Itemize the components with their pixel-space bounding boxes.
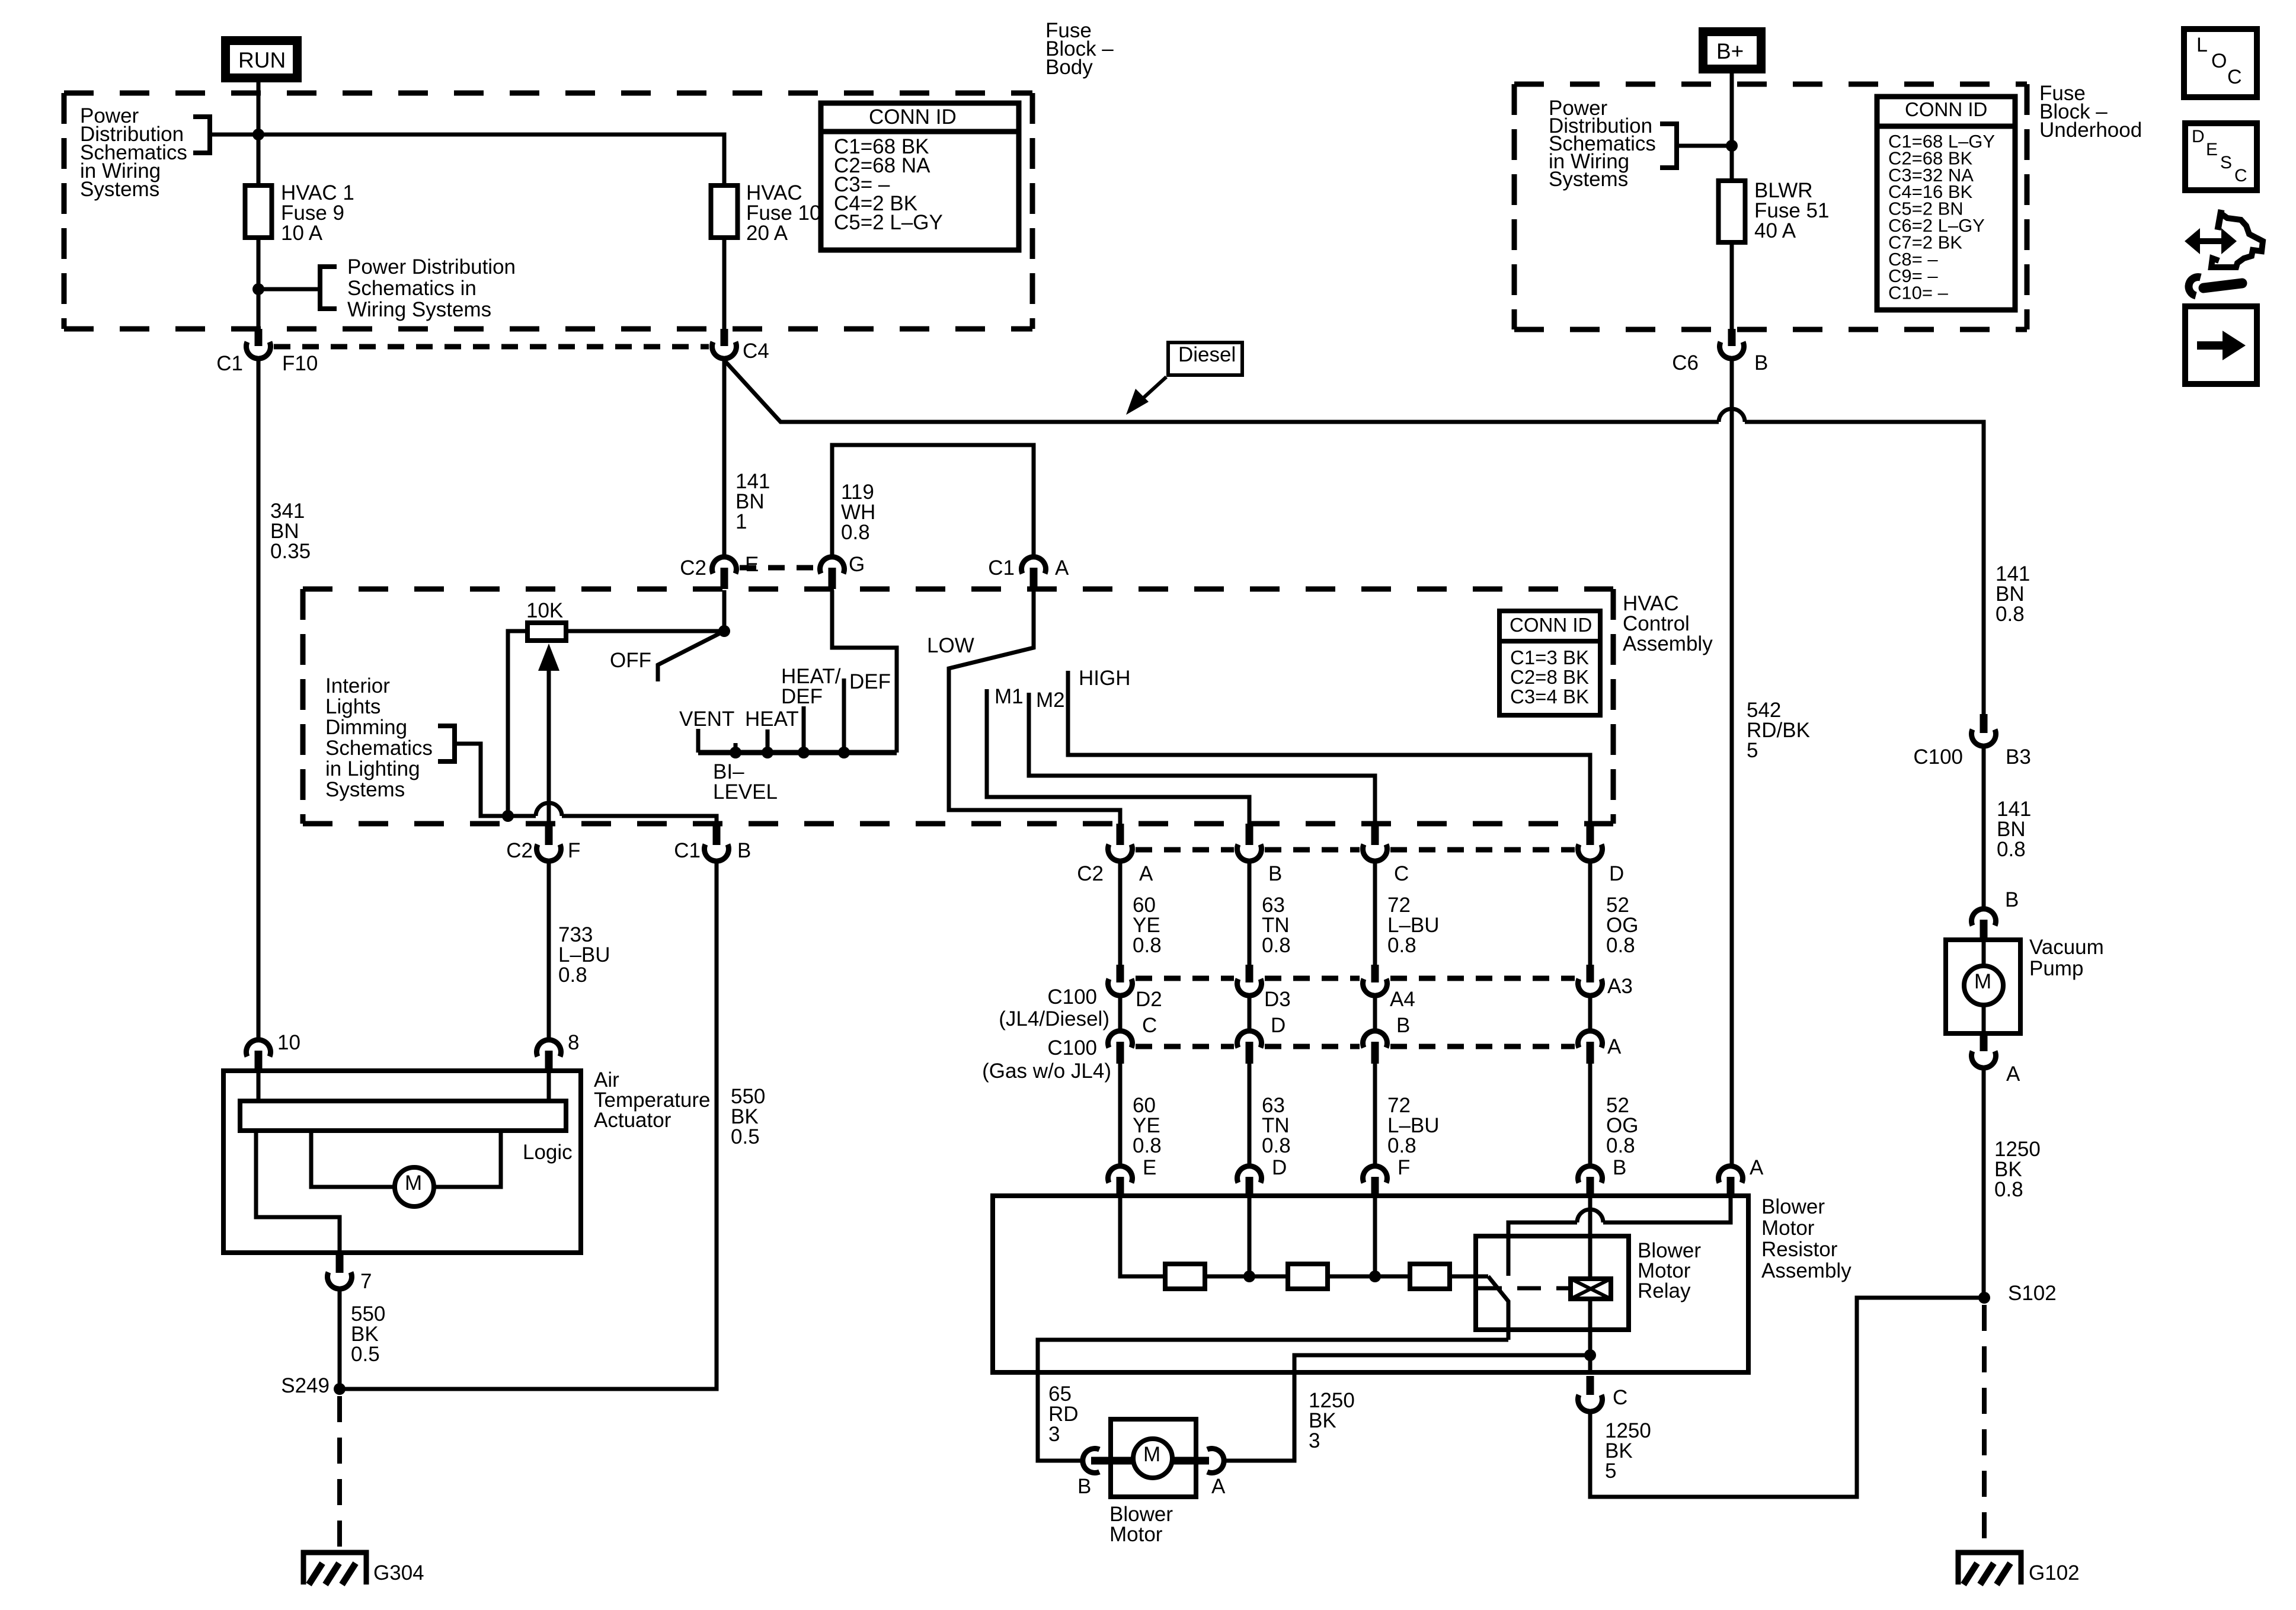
power symbol B+ xyxy=(1699,27,1766,73)
connector pin F xyxy=(1363,1166,1387,1183)
connector C100 row1 col2 xyxy=(1246,965,1253,982)
callout box Diesel xyxy=(1168,343,1242,375)
relay coil xyxy=(1571,1279,1611,1299)
wire hop over wiper xyxy=(536,803,562,816)
svg-text:Relay: Relay xyxy=(1638,1279,1691,1302)
wire 141 BN C4 to C2/E xyxy=(722,359,727,557)
bracket to Power Distribution text 2 xyxy=(320,267,337,309)
wire 733 L-BU xyxy=(547,862,551,1040)
svg-text:Body: Body xyxy=(1045,56,1093,79)
svg-text:0.8: 0.8 xyxy=(1997,838,2026,861)
wire B col to coil xyxy=(1588,1196,1593,1279)
bracket power distribution right xyxy=(1660,124,1677,168)
wire M2 xyxy=(1029,693,1375,824)
wire J3 to fuse 51 xyxy=(1730,146,1734,181)
svg-text:Underhood: Underhood xyxy=(2039,119,2142,142)
svg-text:M: M xyxy=(1974,970,1991,993)
resistor R1 xyxy=(1165,1264,1205,1289)
wire 52 lower xyxy=(1588,1064,1593,1166)
svg-text:Interior: Interior xyxy=(325,674,390,697)
wire 10K to OFF pivot xyxy=(566,629,724,633)
resistor 10K xyxy=(527,623,566,641)
air temperature actuator box xyxy=(223,1071,581,1253)
blower motor box xyxy=(1111,1419,1196,1497)
switch blade OFF xyxy=(658,631,724,681)
svg-text:0.8: 0.8 xyxy=(1606,934,1635,957)
icon wrench-arrow xyxy=(2196,238,2225,244)
svg-text:B: B xyxy=(2005,888,2019,911)
wire R2-R3 xyxy=(1328,1275,1410,1279)
node S249 xyxy=(334,1383,346,1395)
icon LOC box xyxy=(2184,29,2257,97)
fuse block - body box (dashed) xyxy=(64,91,1032,96)
svg-text:Assembly: Assembly xyxy=(1623,632,1713,655)
svg-text:0.8: 0.8 xyxy=(1262,1134,1291,1157)
connector C1 pin B xyxy=(713,824,721,845)
connector C100 row2 col2 xyxy=(1237,1031,1262,1048)
wire M1 xyxy=(987,689,1249,824)
svg-text:CONN ID: CONN ID xyxy=(1905,98,1987,120)
connector C100 row2 col3 xyxy=(1363,1031,1387,1048)
wire R1-R2 xyxy=(1205,1275,1288,1279)
wire fuse10 to C4 xyxy=(722,238,727,329)
svg-text:A: A xyxy=(1211,1475,1226,1498)
svg-text:Schematics: Schematics xyxy=(325,737,433,760)
node HEAT xyxy=(766,729,770,753)
svg-text:C1: C1 xyxy=(988,556,1015,580)
svg-text:A: A xyxy=(2006,1062,2020,1086)
CONN ID table underhood xyxy=(1877,97,2015,310)
svg-text:0.35: 0.35 xyxy=(270,540,311,563)
svg-text:S102: S102 xyxy=(2008,1282,2057,1305)
connector C100 row1 col3 xyxy=(1371,965,1379,982)
svg-text:M1: M1 xyxy=(994,685,1024,708)
dotted line C-D xyxy=(1390,847,1575,853)
svg-text:A: A xyxy=(1055,556,1069,580)
svg-text:Actuator: Actuator xyxy=(594,1109,671,1132)
wire S249 to G304 (dashed) xyxy=(337,1396,342,1551)
wire 10K left leg xyxy=(508,631,527,816)
dotted line row C100-2 b xyxy=(1265,1044,1360,1049)
svg-text:Motor: Motor xyxy=(1761,1217,1815,1240)
svg-text:20 A: 20 A xyxy=(746,222,788,245)
wire C100 link xyxy=(1373,996,1377,1031)
wire 550 BK from C1/B xyxy=(344,862,717,1389)
svg-text:10 A: 10 A xyxy=(281,222,323,245)
dotted line B-C xyxy=(1265,847,1360,853)
power symbol RUN xyxy=(221,36,302,82)
svg-text:E: E xyxy=(1143,1156,1156,1179)
svg-text:Lights: Lights xyxy=(325,695,380,718)
svg-text:B: B xyxy=(1268,862,1282,885)
wire C100 link xyxy=(1118,996,1123,1031)
node junction J3 xyxy=(1726,140,1738,152)
svg-text:LOW: LOW xyxy=(927,634,974,657)
dotted line row C100-1 a xyxy=(1136,976,1234,981)
resistor R2 xyxy=(1288,1264,1328,1289)
svg-text:B: B xyxy=(1077,1475,1091,1498)
wire 60 lower xyxy=(1118,1064,1123,1166)
wire logic output to pin 7 xyxy=(256,1131,340,1253)
svg-text:C2: C2 xyxy=(1077,862,1104,885)
svg-text:B: B xyxy=(1396,1014,1410,1037)
svg-text:HEAT: HEAT xyxy=(745,708,799,731)
svg-text:F: F xyxy=(568,839,580,862)
svg-text:1: 1 xyxy=(736,510,747,533)
wire 119 WH loop xyxy=(832,445,1034,557)
svg-text:C10= –: C10= – xyxy=(1888,283,1949,303)
wire J1 down to fuse 9 xyxy=(257,135,261,185)
node 10K junction xyxy=(502,810,514,822)
svg-text:Resistor: Resistor xyxy=(1761,1238,1838,1261)
wire fuse51 to C6 xyxy=(1730,242,1734,329)
svg-text:G: G xyxy=(849,553,865,576)
wire pin10 to logic bar xyxy=(257,1071,261,1101)
wire G pin to mode bus xyxy=(832,590,897,753)
svg-text:M2: M2 xyxy=(1036,689,1065,712)
svg-text:Systems: Systems xyxy=(1549,168,1628,191)
svg-text:0.5: 0.5 xyxy=(351,1343,380,1366)
wire feed into relay xyxy=(1508,1222,1577,1276)
svg-text:O: O xyxy=(2211,50,2227,72)
connector C2 pin A xyxy=(1117,824,1124,845)
svg-text:Dimming: Dimming xyxy=(325,716,407,739)
svg-text:0.5: 0.5 xyxy=(731,1125,760,1148)
svg-text:C: C xyxy=(1142,1014,1157,1037)
connector 8 xyxy=(537,1040,561,1057)
svg-text:CONN ID: CONN ID xyxy=(1510,614,1592,636)
svg-text:0.8: 0.8 xyxy=(1606,1134,1635,1157)
wiper arrow of 10K xyxy=(547,668,551,822)
svg-text:D3: D3 xyxy=(1264,988,1291,1011)
svg-text:M: M xyxy=(405,1172,422,1195)
connector pin 7 xyxy=(336,1253,344,1273)
svg-text:C100: C100 xyxy=(1047,1036,1097,1060)
wire 65 RD blade output xyxy=(1038,1340,1508,1461)
connector A blower xyxy=(1207,1448,1224,1473)
svg-text:LEVEL: LEVEL xyxy=(713,780,778,804)
blower motor resistor assembly box xyxy=(993,1196,1748,1372)
svg-text:Blower: Blower xyxy=(1761,1195,1825,1218)
svg-text:C1: C1 xyxy=(674,839,701,862)
svg-text:0.8: 0.8 xyxy=(1262,934,1291,957)
svg-text:10K: 10K xyxy=(526,599,563,622)
svg-text:B: B xyxy=(1613,1156,1626,1179)
wire R3 to relay xyxy=(1450,1275,1488,1279)
blower motor relay box xyxy=(1476,1236,1629,1330)
svg-text:F10: F10 xyxy=(282,352,318,375)
svg-text:G102: G102 xyxy=(2029,1561,2080,1585)
wire C2/E pin to OFF pivot xyxy=(722,590,727,631)
wire 550 BK to S249 xyxy=(338,1289,342,1389)
svg-text:B+: B+ xyxy=(1716,39,1744,63)
connector C100 pin B3 xyxy=(1980,714,1988,733)
connector C100 JL4/Diesel pin D2 col1 xyxy=(1117,965,1124,982)
svg-text:M: M xyxy=(1143,1443,1160,1466)
svg-text:0.8: 0.8 xyxy=(1387,934,1416,957)
svg-text:C100: C100 xyxy=(1047,985,1097,1009)
wire logic to motor left xyxy=(311,1131,394,1187)
svg-text:G304: G304 xyxy=(373,1561,424,1585)
svg-text:Diesel: Diesel xyxy=(1178,343,1236,366)
svg-text:0.8: 0.8 xyxy=(1996,603,2025,626)
connector 10 xyxy=(247,1040,271,1057)
connector pin C relay output xyxy=(1587,1376,1594,1395)
fuse block - underhood box (dashed) xyxy=(1514,82,2027,87)
connector B blower xyxy=(1083,1448,1099,1473)
wire C100 link xyxy=(1588,996,1593,1031)
connector pin E xyxy=(1108,1166,1133,1183)
connector A vacuum pump xyxy=(1980,1033,1988,1051)
svg-text:DEF: DEF xyxy=(781,685,823,708)
connector C2 pin E xyxy=(712,557,737,574)
wire pump top xyxy=(1982,940,1986,966)
wire hop over coil column xyxy=(1577,1209,1603,1222)
connector C100 row2 col4 pin A xyxy=(1578,1031,1603,1048)
svg-text:0.8: 0.8 xyxy=(1994,1178,2023,1201)
svg-text:Systems: Systems xyxy=(80,178,159,201)
svg-text:in Lighting: in Lighting xyxy=(325,757,420,780)
svg-text:C4: C4 xyxy=(743,340,769,363)
svg-text:3: 3 xyxy=(1309,1429,1320,1452)
svg-text:Logic: Logic xyxy=(523,1141,573,1164)
svg-text:HIGH: HIGH xyxy=(1079,667,1131,690)
svg-text:40 A: 40 A xyxy=(1754,219,1796,242)
wire 60 YE xyxy=(1118,862,1123,966)
dotted line C2/E to G xyxy=(740,565,817,571)
wire 1250 BK 0.8 xyxy=(1982,1068,1986,1298)
wire 141 BN to pump xyxy=(1982,747,1986,909)
wire logic to motor right xyxy=(434,1131,501,1187)
wire S102 to G102 (dashed) xyxy=(1982,1305,1987,1551)
wire 1250 BK 5 xyxy=(1590,1298,1980,1497)
wire pin8 to logic bar xyxy=(547,1071,551,1101)
svg-text:C: C xyxy=(2234,166,2247,185)
wire 72 L-BU xyxy=(1373,862,1377,966)
svg-text:D: D xyxy=(2192,127,2205,146)
svg-text:Schematics in: Schematics in xyxy=(347,277,477,300)
bracket interior lights xyxy=(438,726,455,761)
wire diesel branch diagonal xyxy=(724,360,1719,422)
connector C2 pin C xyxy=(1371,824,1379,845)
svg-text:VENT: VENT xyxy=(679,708,734,731)
tick VENT xyxy=(696,729,701,753)
svg-text:E: E xyxy=(2206,140,2218,159)
svg-text:S: S xyxy=(2220,153,2232,172)
svg-text:C3=4 BK: C3=4 BK xyxy=(1510,686,1589,708)
svg-text:8: 8 xyxy=(568,1031,579,1054)
node coil output junction xyxy=(1584,1349,1596,1361)
mode bus wire xyxy=(698,750,897,756)
bracket to Power Distribution text xyxy=(193,117,210,153)
svg-text:A: A xyxy=(1139,862,1153,885)
node F junction xyxy=(1369,1270,1381,1282)
svg-text:3: 3 xyxy=(1048,1423,1060,1446)
svg-text:0.8: 0.8 xyxy=(1133,1134,1162,1157)
svg-text:A: A xyxy=(1607,1035,1622,1058)
vacuum pump box xyxy=(1946,940,2020,1033)
relay switch blade xyxy=(1488,1276,1508,1340)
icon next-arrow box xyxy=(2185,306,2257,384)
node BI-LEVEL xyxy=(734,743,738,753)
wire D col xyxy=(1248,1196,1252,1276)
svg-text:D: D xyxy=(1609,862,1624,885)
svg-text:0.8: 0.8 xyxy=(558,964,587,987)
blower motor M xyxy=(1133,1439,1172,1478)
CONN ID table body xyxy=(821,103,1019,250)
wire RUN to junction xyxy=(257,82,261,135)
svg-text:5: 5 xyxy=(1747,739,1758,762)
svg-text:D: D xyxy=(1272,1156,1287,1179)
wire 52 OG xyxy=(1588,862,1593,966)
wire bracket to J3 xyxy=(1677,144,1732,148)
wire hop over B+ column xyxy=(1719,409,1745,422)
node D junction xyxy=(1243,1270,1255,1282)
svg-text:Vacuum: Vacuum xyxy=(2029,936,2104,959)
svg-text:5: 5 xyxy=(1605,1459,1616,1483)
wire coil to C connector xyxy=(1588,1299,1593,1372)
node S102 xyxy=(1978,1292,1990,1304)
logic bar xyxy=(240,1101,566,1131)
svg-text:L: L xyxy=(2196,34,2208,56)
svg-text:10: 10 xyxy=(277,1031,300,1054)
wire E col into chain xyxy=(1120,1196,1165,1276)
svg-text:C100: C100 xyxy=(1913,745,1963,769)
svg-text:C: C xyxy=(2227,66,2242,88)
svg-text:C2: C2 xyxy=(506,839,533,862)
node DEF xyxy=(842,678,846,753)
wire fuse9 to J2 xyxy=(257,238,261,329)
in-line harness dotted line xyxy=(274,344,709,350)
svg-text:C: C xyxy=(1394,862,1409,885)
svg-text:Assembly: Assembly xyxy=(1761,1259,1851,1282)
svg-text:C5=2 L–GY: C5=2 L–GY xyxy=(834,211,943,234)
svg-text:C2=8 BK: C2=8 BK xyxy=(1510,666,1589,688)
wire C100 link xyxy=(1248,996,1252,1031)
svg-text:A4: A4 xyxy=(1390,988,1415,1011)
connector C2 pin B xyxy=(1246,824,1253,845)
connector pin A blower feed xyxy=(1719,1166,1743,1183)
node junction J1 xyxy=(252,129,264,140)
connector pin B xyxy=(1578,1166,1603,1183)
node HEAT/DEF xyxy=(802,706,806,753)
svg-text:C1=3 BK: C1=3 BK xyxy=(1510,646,1589,668)
relay mechanical link (dashed) xyxy=(1478,1286,1569,1291)
wire HIGH xyxy=(1068,671,1590,824)
svg-text:(Gas w/o JL4): (Gas w/o JL4) xyxy=(982,1060,1111,1083)
connector B vacuum pump xyxy=(1971,909,1996,926)
connector C2 pin D xyxy=(1587,824,1594,845)
svg-text:0.8: 0.8 xyxy=(1387,1134,1416,1157)
svg-text:(JL4/Diesel): (JL4/Diesel) xyxy=(999,1007,1109,1030)
connector pin D xyxy=(1237,1166,1262,1183)
CONN ID table HVAC xyxy=(1499,611,1600,715)
svg-text:B3: B3 xyxy=(2006,745,2031,769)
svg-text:B: B xyxy=(737,839,751,862)
fuse F51 BLWR xyxy=(1719,181,1745,242)
svg-text:DEF: DEF xyxy=(849,670,891,693)
HVAC control assembly box (dashed) xyxy=(303,587,1613,592)
svg-text:Pump: Pump xyxy=(2029,957,2083,980)
wire 1250 BK 3 xyxy=(1226,1355,1586,1461)
ground G102 xyxy=(1958,1553,2021,1585)
svg-text:C2: C2 xyxy=(680,556,706,580)
dotted line row C100-2 c xyxy=(1390,1044,1575,1049)
wire B+ down xyxy=(1730,73,1734,146)
svg-text:Wiring Systems: Wiring Systems xyxy=(347,298,491,321)
svg-text:F: F xyxy=(1398,1156,1410,1179)
wire 63 TN xyxy=(1248,862,1252,966)
connector C100 Gas pin C col1 xyxy=(1108,1031,1133,1048)
dotted line row C100-1 b xyxy=(1265,976,1360,981)
svg-text:E: E xyxy=(745,553,759,576)
switch blade LOW wire xyxy=(949,590,1120,824)
svg-text:C1: C1 xyxy=(216,352,243,375)
svg-text:Motor: Motor xyxy=(1109,1523,1163,1546)
svg-text:7: 7 xyxy=(360,1270,372,1293)
svg-text:D2: D2 xyxy=(1136,988,1162,1011)
connector G xyxy=(820,557,845,574)
fuse F10 HVAC xyxy=(711,185,738,238)
node junction J2 xyxy=(252,283,264,295)
connector C100 row1 col4 pin A3 xyxy=(1587,965,1594,982)
svg-text:S249: S249 xyxy=(281,1374,330,1397)
wire J1 to HVAC fuse 10 column xyxy=(210,135,724,185)
wire 542 RD/BK xyxy=(1730,359,1734,1166)
wire A feed to fixed contact xyxy=(1603,1196,1731,1222)
dotted line A-B xyxy=(1136,847,1234,853)
svg-text:0.8: 0.8 xyxy=(841,521,870,544)
svg-text:B: B xyxy=(1754,351,1768,375)
svg-text:C6: C6 xyxy=(1672,351,1699,375)
ground G304 xyxy=(303,1553,366,1585)
svg-text:D: D xyxy=(1271,1014,1285,1037)
fuse F9 HVAC 1 xyxy=(245,185,272,238)
svg-text:RUN: RUN xyxy=(238,48,286,72)
actuator motor M xyxy=(395,1167,434,1206)
icon DESC box xyxy=(2185,123,2257,190)
resistor R3 xyxy=(1410,1264,1450,1289)
connector C2 pin F xyxy=(545,824,553,845)
vacuum pump motor M xyxy=(1964,966,2003,1005)
wire J2 to bracket xyxy=(258,287,320,292)
wire dimmer to C1/B xyxy=(562,816,717,824)
dotted line row C100-2 a xyxy=(1136,1044,1234,1049)
connector C1 pin F10 xyxy=(255,329,263,346)
svg-text:OFF: OFF xyxy=(610,649,651,672)
wire 63 lower xyxy=(1248,1064,1252,1166)
wire 341 BN left column xyxy=(257,359,261,1040)
wire diesel to vacuum pump column xyxy=(1745,422,1984,714)
wire bracket to dimmer wire xyxy=(455,744,536,816)
wire 72 lower xyxy=(1373,1064,1377,1166)
svg-text:0.8: 0.8 xyxy=(1133,934,1162,957)
connector C6 pin B xyxy=(1728,329,1736,346)
node OFF pivot xyxy=(718,625,730,637)
connector C4 xyxy=(721,329,728,346)
svg-text:CONN ID: CONN ID xyxy=(869,105,957,129)
svg-text:Power Distribution: Power Distribution xyxy=(347,255,516,279)
svg-text:A: A xyxy=(1750,1156,1764,1179)
svg-text:A3: A3 xyxy=(1607,975,1633,998)
svg-text:C: C xyxy=(1613,1386,1627,1409)
connector C1 pin A xyxy=(1022,557,1046,574)
svg-text:Systems: Systems xyxy=(325,778,405,801)
wire pump bottom xyxy=(1982,1005,1986,1033)
dotted line row C100-1 c xyxy=(1390,976,1575,981)
wire F col xyxy=(1373,1196,1377,1276)
